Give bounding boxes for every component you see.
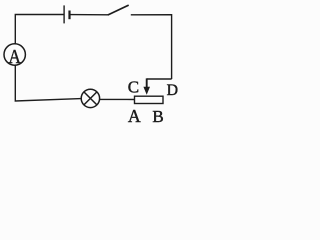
wire: lamp to rheostat left terminal <box>100 98 135 100</box>
lamp L1: X cross <box>84 92 97 105</box>
svg-text:B: B <box>152 107 163 126</box>
wire: top-left corner run (left vertical top + top horizontal to battery) <box>15 15 64 44</box>
lamp L1: bulb circle <box>81 89 99 107</box>
svg-text:A: A <box>8 46 21 69</box>
svg-text:A: A <box>128 106 141 126</box>
battery B1: long plate (positive) <box>63 5 65 23</box>
rheostat R1: resistance box body <box>135 96 164 103</box>
ammeter A1: meter circle <box>4 44 25 65</box>
svg-text:C: C <box>128 78 139 97</box>
battery B1: short plate (negative) <box>68 11 70 20</box>
wire: switch fixed contact to top-right corner and right vertical down <box>131 15 172 79</box>
wire: bottom run from lamp to bottom-left corner and up left side <box>15 65 81 101</box>
wire: connector from right vertical to slider arrow <box>147 78 172 80</box>
wire: battery to switch pivot <box>70 14 109 16</box>
slider arrow shaft into rheostat <box>146 78 148 88</box>
svg-text:D: D <box>167 82 178 99</box>
slider arrowhead <box>143 87 150 95</box>
switch S1: open lever blade <box>108 5 129 15</box>
